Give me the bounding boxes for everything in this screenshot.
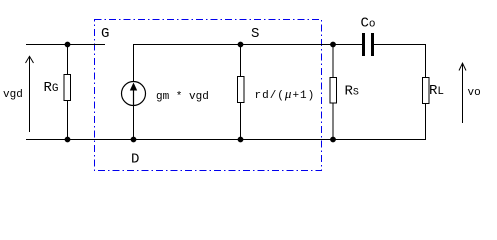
- junction dot source bottom: [131, 137, 137, 143]
- svg-text:S: S: [251, 26, 259, 42]
- wire: RL bottom lead: [425, 104, 427, 140]
- junction dot rd bottom: [238, 137, 244, 143]
- junction dot RG bottom: [65, 137, 71, 143]
- junction dot RS bottom: [330, 137, 336, 143]
- svg-text:vgd: vgd: [3, 89, 23, 101]
- wire: gate input horizontal: [26, 44, 105, 46]
- svg-text:D: D: [131, 152, 139, 168]
- junction dot RS top: [330, 42, 336, 48]
- resistor RS: [332, 45, 334, 78]
- wire: bottom rail: [26, 139, 426, 141]
- resistor rd/(mu+1): [240, 45, 242, 77]
- svg-text:Co: Co: [361, 16, 376, 32]
- svg-text:G: G: [101, 26, 109, 42]
- arrow vgd (input voltage): [26, 56, 34, 132]
- svg-text:gm * vgd: gm * vgd: [156, 91, 209, 103]
- wire: capacitor to RL corner: [374, 45, 426, 78]
- junction dot gate/RG: [65, 42, 71, 48]
- resistor RL: [423, 78, 430, 104]
- arrow vo (output voltage): [459, 63, 466, 123]
- current source gm*vgd: [133, 45, 135, 83]
- wire: source row horizontal: [133, 44, 362, 46]
- capacitor Co: [362, 33, 365, 56]
- svg-text:vo: vo: [468, 87, 481, 99]
- junction dot S/rd top: [238, 42, 244, 48]
- dashed FET-model boundary box: [95, 20, 322, 171]
- svg-text:RG: RG: [44, 80, 59, 96]
- resistor RG: [67, 45, 69, 75]
- svg-text:RL: RL: [429, 83, 444, 99]
